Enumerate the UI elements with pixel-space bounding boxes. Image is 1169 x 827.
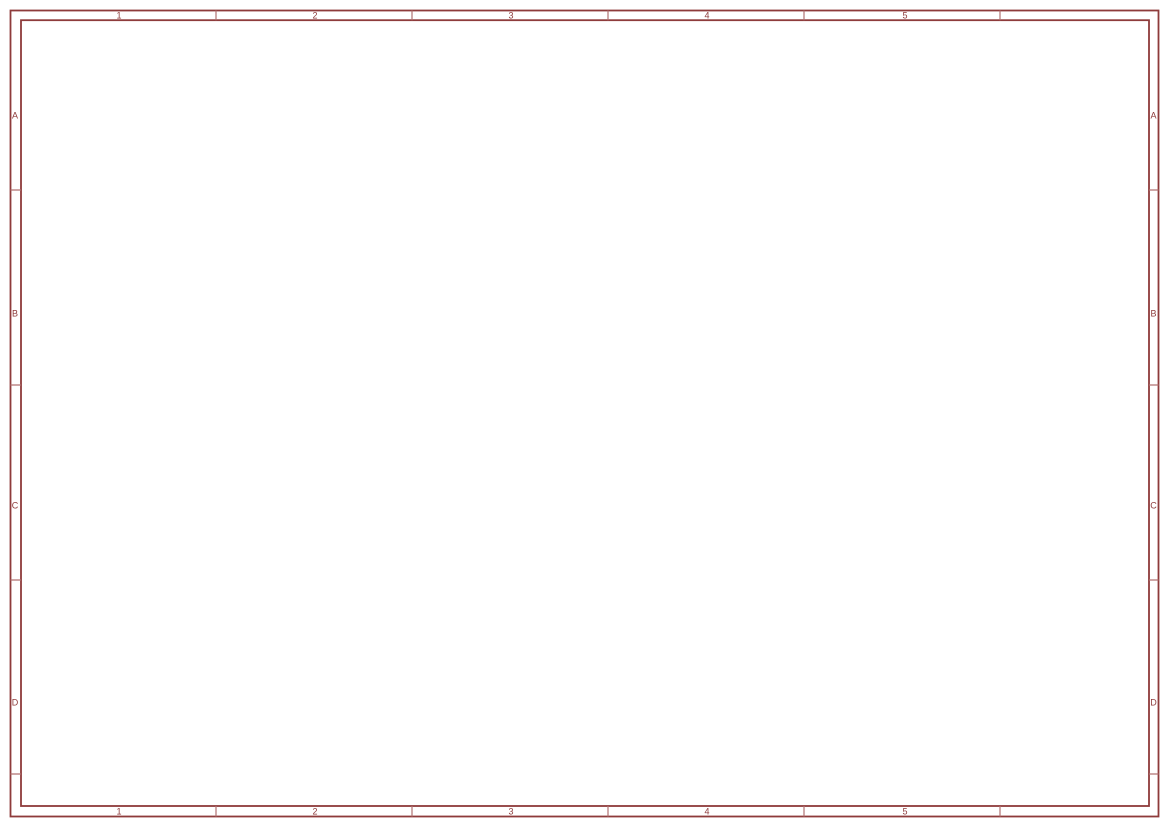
svg-text:1: 1 [116,807,121,817]
svg-text:B: B [1150,309,1156,319]
svg-text:C: C [12,501,19,511]
svg-text:5: 5 [902,807,907,817]
svg-text:1: 1 [116,11,121,21]
svg-text:3: 3 [508,807,513,817]
svg-text:A: A [1150,111,1156,121]
svg-text:2: 2 [312,11,317,21]
svg-text:3: 3 [508,11,513,21]
svg-text:D: D [1150,698,1157,708]
svg-text:C: C [1150,501,1157,511]
svg-text:2: 2 [312,807,317,817]
svg-text:4: 4 [704,807,709,817]
svg-text:B: B [12,309,18,319]
svg-text:4: 4 [704,11,709,21]
svg-text:A: A [12,111,18,121]
svg-text:5: 5 [902,11,907,21]
svg-text:D: D [12,698,19,708]
